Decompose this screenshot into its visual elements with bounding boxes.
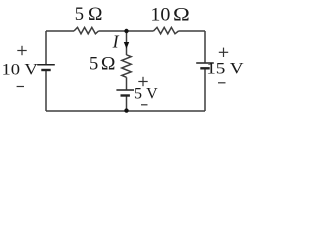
polarity - (left source): [17, 86, 24, 88]
battery V1 10V long plate (+): [37, 64, 55, 66]
svg-text:I: I: [112, 31, 120, 51]
polarity + (left source): [17, 46, 26, 55]
resistor 5 ohm (middle vertical zigzag): [122, 55, 131, 78]
wire: right branch upper: [204, 31, 206, 62]
polarity - (right source): [218, 82, 226, 84]
svg-text:10 V: 10 V: [1, 61, 38, 79]
battery V1 10V short plate (-): [41, 69, 50, 71]
wire: middle battery to bottom node: [126, 96, 128, 111]
wire top (with resistor zigzags inline): [46, 27, 205, 111]
wire: middle branch from top node down: [126, 31, 128, 55]
wire: left branch lower: [45, 71, 47, 111]
wire: right branch lower: [204, 69, 206, 111]
svg-text:15 V: 15 V: [206, 59, 244, 77]
svg-text:Ω: Ω: [173, 5, 190, 25]
wire: resistor to top-right corner: [179, 30, 206, 32]
node junction dot (top): [124, 29, 128, 33]
svg-text:5: 5: [89, 55, 98, 75]
svg-text:10: 10: [150, 5, 170, 25]
resistor 10 ohm (top right zigzag): [154, 27, 179, 33]
battery V3 5V long plate (+): [116, 89, 134, 91]
wire: middle resistor to battery: [126, 77, 128, 89]
battery V2 15V long plate (+): [196, 62, 214, 64]
node junction dot (bottom): [124, 108, 128, 112]
current arrow I (arrowhead on middle branch): [124, 42, 129, 49]
polarity + (right source): [219, 48, 228, 57]
svg-text:Ω: Ω: [101, 54, 116, 74]
polarity + (middle source): [138, 77, 147, 86]
wire: top-left corner to 5-ohm resistor: [46, 30, 74, 32]
svg-text:5: 5: [75, 5, 84, 25]
resistor 5 ohm (top left zigzag): [74, 27, 99, 33]
wire: bottom: [46, 110, 205, 112]
battery V2 15V short plate (-): [200, 67, 209, 69]
polarity - (middle source): [141, 104, 148, 106]
svg-text:5 V: 5 V: [134, 86, 158, 103]
battery V3 5V short plate (-): [121, 94, 130, 96]
wire: left branch upper: [45, 31, 47, 64]
wire: between top resistors: [99, 30, 154, 32]
svg-text:Ω: Ω: [88, 4, 102, 24]
